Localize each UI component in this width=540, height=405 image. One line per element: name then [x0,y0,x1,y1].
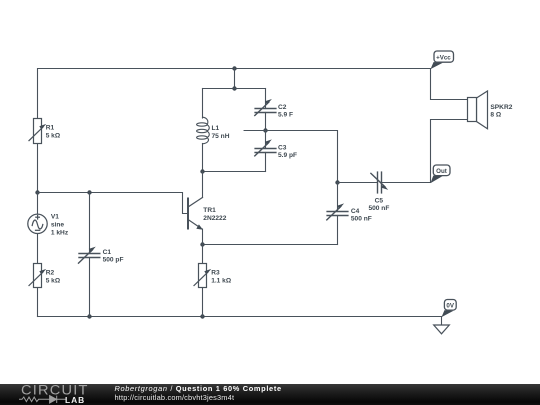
svg-text:sine: sine [51,221,65,228]
label TR1 value [203,207,226,222]
wire Vcc to speaker top [431,69,468,100]
svg-text:C2: C2 [278,104,287,111]
transistor TR1 [188,198,203,230]
label L1 value [212,125,230,140]
label R2 value [46,269,61,284]
svg-text:0V: 0V [446,302,454,309]
node junction top rail to tank [232,66,236,70]
svg-text:L1: L1 [212,125,220,132]
svg-text:8 Ω: 8 Ω [490,112,501,119]
svg-text:C4: C4 [351,208,360,215]
svg-text:TR1: TR1 [203,207,216,214]
svg-text:C1: C1 [103,249,112,256]
inductor L1 [197,117,210,144]
capacitor C2 [255,99,276,116]
resistor R1 [29,119,46,144]
label SPKR2 value [490,104,512,119]
wire C2 lower stub [265,113,267,131]
wire C4 lower stub [337,216,339,245]
capacitor C1 [79,247,100,264]
wire tank bottom [203,171,266,173]
wire tank feed [234,69,236,89]
node junction emitter [200,242,204,246]
svg-text:5 kΩ: 5 kΩ [46,133,61,140]
svg-text:+Vcc: +Vcc [436,55,451,62]
resistor R3 [194,264,211,288]
wire top rail [38,69,431,119]
resistor R2 [29,264,46,288]
label C4 value [351,208,372,223]
node B junction mid tank [263,128,267,132]
logo LAB [65,395,85,405]
wire C1 lower stub [89,258,91,317]
wire L1 upper stub [202,89,204,119]
ground [434,325,450,334]
svg-text:C3: C3 [278,144,287,151]
wire mid to C4 branch [266,131,338,183]
logo squiggle [17,394,69,405]
node junction tank bottom collector [200,169,204,173]
label C1 value [103,249,124,264]
footer bar [0,384,540,405]
svg-text:1.1 kΩ: 1.1 kΩ [211,278,232,285]
wire V1 to R2 [37,233,39,263]
svg-text:R2: R2 [46,269,55,276]
wire tank top [203,88,266,90]
svg-text:SPKR2: SPKR2 [490,104,512,111]
flag +Vcc [431,51,454,69]
svg-text:V1: V1 [51,214,59,221]
wire node A to V1 [37,193,39,215]
svg-text:5 kΩ: 5 kΩ [46,278,61,285]
label C3 value [278,144,297,159]
label R3 value [211,269,232,284]
wire mid stub left [244,130,265,132]
node junction tank top [232,86,236,90]
wire C5 right stub [382,182,431,184]
svg-text:R3: R3 [211,269,220,276]
wire C4 upper stub [337,183,339,212]
flag 0V [442,300,457,318]
wire L1 lower stub [202,144,204,172]
wire emitter [202,229,204,245]
flag Out [431,165,451,183]
capacitor C3 [255,139,276,156]
wire R1 to node A [37,144,39,193]
svg-text:500 nF: 500 nF [351,216,372,223]
speaker SPKR2 [468,91,488,129]
logo CIRCUIT [21,383,89,398]
wire C2 upper stub [265,89,267,109]
wire R2 to bottom rail [37,288,39,317]
label C5 value [368,197,389,212]
svg-text:Out: Out [436,168,447,175]
node junction C1 top [87,190,91,194]
node junction R3 bottom [200,314,204,318]
wire C3 upper stub [265,131,267,149]
label R1 value [46,124,61,139]
wire ground stub [441,317,443,326]
wire node A to base [38,193,188,214]
footer url line [115,393,235,402]
svg-text:1 kHz: 1 kHz [51,230,69,237]
svg-text:500 pF: 500 pF [103,257,124,264]
wire collector [202,172,204,198]
label C2 value [278,104,293,119]
wire R3 to bottom rail [202,288,204,317]
svg-text:5.9 F: 5.9 F [278,112,293,119]
wire C5 left stub [338,182,378,184]
svg-text:R1: R1 [46,124,55,131]
wire bottom rail [38,316,442,318]
label V1 value [51,214,69,237]
footer credit line [115,384,282,393]
node A junction [35,190,39,194]
svg-text:5.9 pF: 5.9 pF [278,152,297,159]
svg-text:75 nH: 75 nH [212,133,230,140]
svg-text:2N2222: 2N2222 [203,215,226,222]
wire emitter row [203,244,338,246]
source V1 [28,214,47,233]
capacitor C5 [371,172,388,193]
wire Out to speaker bottom [431,120,468,183]
svg-text:C5: C5 [375,197,384,204]
capacitor C4 [327,203,348,220]
node junction C5 tap [335,180,339,184]
wire C1 upper stub [89,193,91,254]
node junction C1 bottom [87,314,91,318]
wire C3 lower stub [265,153,267,172]
svg-text:500 nF: 500 nF [368,205,389,212]
wire emitter to R3 [202,245,204,264]
